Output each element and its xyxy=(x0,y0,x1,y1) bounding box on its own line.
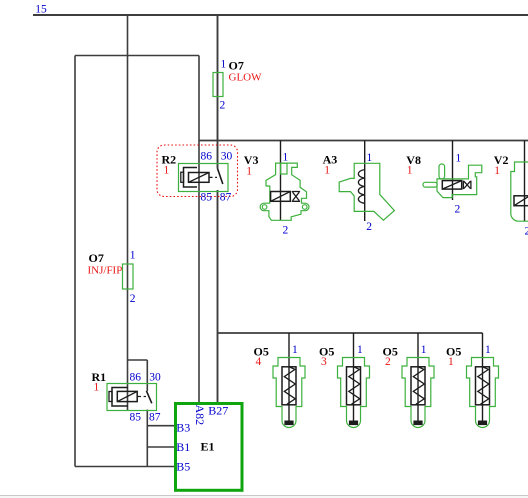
solenoid valve V8 connector tab xyxy=(439,164,445,179)
wire left vertical down to E1 B5 xyxy=(74,56,76,467)
relay R2 coil xyxy=(189,173,210,183)
svg-text:2: 2 xyxy=(525,225,528,237)
injector O5 cyl 4 nozzle tip xyxy=(284,421,293,426)
svg-text:1: 1 xyxy=(357,344,363,356)
relay R2 actuator dashes xyxy=(210,176,218,178)
svg-text:2: 2 xyxy=(455,203,461,215)
svg-text:1: 1 xyxy=(494,165,500,177)
wire A3 drop xyxy=(364,141,366,222)
svg-text:1: 1 xyxy=(324,165,330,177)
wire to E1 B3 xyxy=(147,425,175,427)
svg-text:4: 4 xyxy=(256,356,262,368)
svg-text:2: 2 xyxy=(130,293,136,305)
injector O5 cyl 1 wire xyxy=(482,333,484,421)
relay R2 coil bracket xyxy=(184,168,198,188)
injector O5 cyl 4 winding xyxy=(284,367,295,404)
fuse O7 GLOW xyxy=(213,73,223,97)
solenoid valve V3 outline xyxy=(260,163,309,220)
relay R1 actuator dashes xyxy=(138,396,146,398)
svg-text:3: 3 xyxy=(321,356,327,368)
svg-text:B1: B1 xyxy=(176,440,190,454)
solenoid valve V8 valve symbol xyxy=(463,181,471,190)
injector O5 cyl 1 outline xyxy=(467,358,499,428)
wire V8 drop xyxy=(452,141,454,201)
relay R2 body xyxy=(179,164,229,192)
solenoid valve V3 connector tab xyxy=(281,163,287,174)
injector O5 cyl 3 winding xyxy=(349,367,360,404)
solenoid valve V8 outline xyxy=(437,165,482,197)
relay R1 coil bracket xyxy=(112,388,128,407)
relay R1 body xyxy=(107,384,157,411)
svg-text:1: 1 xyxy=(246,165,252,177)
relay R1 coil cap xyxy=(109,392,112,402)
svg-text:B27: B27 xyxy=(208,403,228,417)
injector O5 cyl 3 nozzle tip xyxy=(349,421,358,426)
svg-text:GLOW: GLOW xyxy=(229,72,263,84)
wire horizontal branch at y55 xyxy=(75,55,199,57)
injector O5 cyl 3 outline xyxy=(338,358,370,428)
relay R2 coil cap xyxy=(181,172,184,182)
svg-text:1: 1 xyxy=(421,344,427,356)
svg-text:B5: B5 xyxy=(176,460,190,474)
solenoid valve V3 valve symbol xyxy=(292,192,300,202)
svg-text:2: 2 xyxy=(366,221,372,233)
relay R1 contact blade xyxy=(146,391,151,404)
injector O5 cyl 4 coil box xyxy=(282,367,296,405)
svg-text:30: 30 xyxy=(149,372,161,384)
svg-text:E1: E1 xyxy=(201,439,215,453)
wire R2 pin 87 vertical through injector rail to E1 B27 xyxy=(217,190,219,402)
svg-text:INJ/FIP: INJ/FIP xyxy=(88,265,123,277)
svg-text:86: 86 xyxy=(130,372,142,384)
svg-text:O7: O7 xyxy=(89,251,104,265)
wire R1 feed jog xyxy=(128,359,148,361)
wire to E1 B5 xyxy=(75,466,175,468)
solenoid valve V2 coil xyxy=(514,196,528,206)
injector O5 cyl 3 wire xyxy=(353,333,355,421)
svg-text:87: 87 xyxy=(220,191,232,203)
solenoid valve V8 coil xyxy=(442,181,461,190)
injector O5 cyl 2 coil box xyxy=(411,367,425,405)
bottom panel separator xyxy=(0,495,528,497)
solenoid valve V8 nose xyxy=(423,182,437,187)
injector O5 cyl 2 wire xyxy=(417,333,419,421)
svg-text:1: 1 xyxy=(94,382,100,394)
svg-text:15: 15 xyxy=(35,4,47,16)
svg-text:1: 1 xyxy=(407,165,413,177)
relay R2 highlight dotted box xyxy=(157,145,238,197)
actuator A3 outline xyxy=(339,163,394,220)
svg-text:85: 85 xyxy=(201,191,213,203)
wire injector rail xyxy=(218,332,483,334)
actuator A3 coil winding xyxy=(358,170,364,204)
node 15 supply rail xyxy=(33,14,528,16)
injector O5 cyl 4 wire xyxy=(288,333,290,421)
injector O5 cyl 1 winding xyxy=(478,367,489,404)
svg-text:1: 1 xyxy=(456,152,462,164)
wire second rail feeding valves xyxy=(199,140,528,142)
injector O5 cyl 2 outline xyxy=(402,358,434,428)
injector O5 cyl 3 coil box xyxy=(347,367,361,405)
injector O5 cyl 2 nozzle tip xyxy=(413,421,422,426)
ECU E1 box xyxy=(176,404,243,491)
injector O5 cyl 1 coil box xyxy=(476,367,490,405)
svg-text:1: 1 xyxy=(283,152,289,164)
relay R1 coil xyxy=(117,391,137,401)
svg-text:86: 86 xyxy=(201,151,213,163)
svg-text:85: 85 xyxy=(130,412,142,424)
injector O5 cyl 4 outline xyxy=(273,358,305,428)
wire vertical through R2 coil to E1 A82 xyxy=(198,56,200,403)
relay R2 contact blade xyxy=(218,169,223,185)
svg-text:1: 1 xyxy=(367,152,373,164)
svg-text:1: 1 xyxy=(292,344,298,356)
svg-text:A82: A82 xyxy=(193,405,207,426)
wire to E1 B1 xyxy=(147,446,175,448)
wire V2 drop xyxy=(524,141,526,222)
solenoid valve V3 ear holes xyxy=(262,205,267,210)
wire vertical from rail 15 to relay R1 coil xyxy=(127,15,129,411)
svg-text:2: 2 xyxy=(385,356,391,368)
wire vertical from rail 15 through fuse O7 GLOW to R2 pin 30 xyxy=(217,15,219,169)
svg-text:2: 2 xyxy=(283,225,289,237)
svg-text:30: 30 xyxy=(221,151,233,163)
svg-text:1: 1 xyxy=(164,164,170,176)
svg-text:O7: O7 xyxy=(229,59,244,73)
wire V3 drop xyxy=(280,141,282,221)
wire R1 pin 30 xyxy=(146,360,148,391)
svg-text:2: 2 xyxy=(220,100,226,112)
solenoid valve V2 outline (clipped) xyxy=(511,162,528,221)
injector O5 cyl 1 nozzle tip xyxy=(478,421,487,426)
svg-text:1: 1 xyxy=(485,344,491,356)
svg-text:1: 1 xyxy=(221,59,227,71)
svg-text:1: 1 xyxy=(448,356,454,368)
wire R1 pin 87 down xyxy=(146,410,148,467)
fuse O7 INJ/FIP xyxy=(123,264,134,289)
svg-text:87: 87 xyxy=(149,412,161,424)
solenoid valve V3 coil xyxy=(271,192,291,202)
svg-text:1: 1 xyxy=(130,250,136,262)
injector O5 cyl 2 winding xyxy=(413,367,424,404)
svg-text:B3: B3 xyxy=(176,421,190,435)
